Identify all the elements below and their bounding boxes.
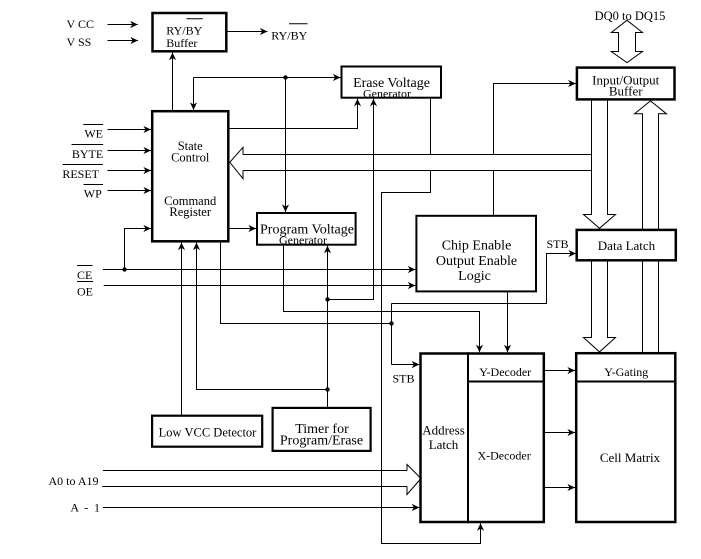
wire VSS input arrow (108, 40, 139, 42)
svg-text:Output Enable: Output Enable (436, 254, 517, 269)
wire Erase Voltage Generator bottom feed down to timer line (328, 99, 374, 300)
wire X-Decoder to Cell Matrix lower (545, 487, 575, 489)
wire X-Decoder to Cell Matrix upper (545, 432, 575, 434)
wire VCC input arrow (108, 24, 138, 26)
svg-text:Latch: Latch (429, 437, 459, 452)
svg-text:WP: WP (84, 186, 102, 200)
svg-text:Cell Matrix: Cell Matrix (600, 450, 661, 465)
wire A0-A19 bus top line (103, 470, 407, 472)
svg-text:A0 to A19: A0 to A19 (49, 474, 99, 488)
svg-text:BYTE: BYTE (72, 147, 103, 161)
wire Chip Enable logic bottom to Y-Decoder top (507, 292, 509, 352)
wire Erase Voltage Generator right-bottom to bus1 (430, 99, 432, 155)
wire feed down into State Control top (193, 78, 195, 111)
wire Y-Decoder to Y-Gating (545, 370, 575, 372)
svg-text:Logic: Logic (458, 269, 491, 284)
wire State Control to Program Voltage Generator (230, 228, 257, 230)
wire Program Voltage Generator bottom to Y-Decoder top (284, 246, 480, 353)
wire WE input arrow (108, 129, 152, 131)
bus shaft line 2 (243, 170, 592, 172)
hollow arrow I/O Buffer down to Data Latch (584, 101, 616, 229)
svg-text:A - 1: A - 1 (70, 501, 101, 515)
svg-text:DQ0 to DQ15: DQ0 to DQ15 (595, 9, 666, 23)
box Y-Gating / Cell Matrix (576, 353, 675, 522)
svg-text:Data Latch: Data Latch (598, 238, 656, 253)
svg-text:STB: STB (393, 372, 415, 386)
svg-text:Generator: Generator (279, 233, 327, 247)
box Low VCC Detector (152, 416, 262, 447)
divider Address Latch vertical (467, 352, 469, 523)
box Data Latch (577, 230, 676, 260)
wire CE line (103, 269, 416, 271)
wire CE branch to State Control left (125, 229, 152, 270)
box RY/BY Buffer (153, 13, 227, 51)
wire A-1 line (103, 507, 419, 509)
wire up-arrow shaft right, Y-Gating to Data Latch (658, 262, 660, 353)
box Erase Voltage Generator (342, 67, 442, 98)
svg-text:Low VCC Detector: Low VCC Detector (159, 426, 258, 440)
svg-text:Buffer: Buffer (609, 83, 643, 98)
hollow arrow head into State Control (230, 147, 243, 178)
node junction dot on CE line (122, 267, 126, 271)
node junction dot at (327,389.5) (325, 387, 329, 391)
wire STB to Data Latch (392, 254, 577, 304)
bus shaft line 1 (243, 154, 592, 156)
box Program Voltage Generator (257, 213, 356, 245)
svg-text:STB: STB (547, 237, 569, 251)
hollow double arrow DQ0-DQ15 (611, 20, 642, 62)
wire up-arrow shaft left, Y-Gating to Data Latch (642, 262, 644, 353)
svg-text:Control: Control (171, 150, 210, 164)
wire bus1 up to Input/Output Buffer (494, 84, 576, 155)
svg-text:Address: Address (422, 423, 465, 438)
wire State Control to RY/BY Buffer (up arrow) (172, 53, 174, 111)
svg-text:Y-Decoder: Y-Decoder (479, 365, 531, 379)
wire RESET input arrow (108, 170, 152, 172)
wire STB to Address Latch (392, 364, 420, 366)
box Input/Output Buffer (577, 68, 675, 100)
svg-text:Program/Erase: Program/Erase (280, 434, 363, 449)
svg-text:RESET: RESET (62, 167, 99, 181)
wire Low VCC Detector to State Control bottom (181, 243, 183, 415)
wire BYTE input arrow (108, 150, 152, 152)
svg-text:OE: OE (77, 285, 93, 299)
wire branch down to Program Voltage Generator top (285, 78, 287, 213)
hollow arrow up into I/O Buffer (635, 101, 667, 229)
svg-text:WE: WE (84, 126, 103, 140)
svg-text:Register: Register (169, 205, 211, 219)
hollow arrow head A0-A19 into Address Latch (407, 465, 421, 495)
node junction dot at (391.5,323.5) (389, 321, 393, 325)
divider Y-Decoder horizontal (468, 381, 545, 383)
wire bus2 branch to X-Decoder (jog) (382, 171, 481, 544)
wire STB vertical (391, 304, 393, 365)
node junction dot at (327,299) (325, 297, 329, 301)
wire RY/BY output arrow (228, 31, 268, 33)
svg-text:Generator: Generator (363, 87, 411, 101)
box State Control / Command Register (152, 111, 228, 241)
wire State Control bottom to STB tree (221, 243, 392, 324)
svg-text:CE: CE (77, 268, 92, 282)
wire OE line (104, 285, 416, 287)
node junction dot at (285,77) (283, 75, 287, 79)
svg-text:Y-Gating: Y-Gating (604, 365, 648, 379)
svg-text:V SS: V SS (67, 35, 92, 49)
svg-text:RY/BY: RY/BY (271, 28, 307, 42)
wire State Control right to Erase Voltage Generator bottom (230, 99, 358, 129)
divider Y-Gating horizontal (575, 381, 677, 383)
svg-text:X-Decoder: X-Decoder (477, 449, 530, 463)
wire A0-A19 bus bottom line (102, 486, 407, 488)
box Address Latch / Y-Decoder / X-Decoder (421, 354, 544, 523)
svg-text:Chip Enable: Chip Enable (442, 238, 512, 253)
box Timer for Program/Erase (273, 408, 371, 451)
hollow arrow Data Latch down to Y-Gating (584, 262, 616, 352)
wire bus2 down to Chip Enable logic top (493, 171, 495, 215)
wire Timer to Program Voltage Generator bottom (327, 246, 329, 407)
wire horizontal to Erase Voltage Generator (194, 77, 341, 79)
wire timer branch to State Control bottom (197, 243, 328, 390)
svg-text:Buffer: Buffer (166, 36, 197, 50)
box Chip Enable Output Enable Logic (416, 216, 536, 292)
wire WP input arrow (108, 190, 152, 192)
svg-text:V CC: V CC (67, 17, 94, 31)
